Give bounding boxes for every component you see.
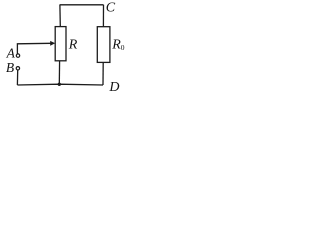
svg-text:R0: R0 [111,38,125,53]
svg-text:D: D [108,80,119,94]
wire bottom (D rail) [17,83,103,86]
wire R0 top lead [102,5,104,27]
wire top (C rail) [60,4,104,6]
wiper arrowhead into R [50,41,55,46]
terminal A [16,54,19,57]
node junction dot [58,83,61,86]
wire R bottom lead [58,61,60,84]
svg-text:A: A [6,46,16,61]
wire B down to bottom rail [16,70,18,85]
wire R0 bottom lead [102,62,104,85]
wire R top lead [59,5,61,27]
wire A to wiper [17,43,50,54]
svg-text:R: R [68,38,78,53]
svg-text:C: C [106,1,116,16]
resistor R [55,27,66,61]
resistor R0 [97,27,110,63]
terminal B [16,67,19,70]
svg-text:B: B [6,60,14,75]
